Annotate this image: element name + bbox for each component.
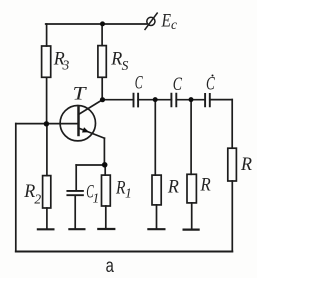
ground bar under second R (184, 229, 199, 231)
capacitor C second plates (171, 94, 176, 107)
wire cap2 to cap3 (176, 99, 205, 101)
resistor R second body (187, 174, 196, 203)
ground bar under R2 (38, 228, 54, 230)
node base (44, 121, 49, 126)
svg-text:1: 1 (93, 190, 100, 205)
capacitor C1 lead bottom (74, 196, 76, 228)
resistor R1 leads (104, 165, 107, 228)
resistor RS body (98, 46, 106, 78)
svg-text:c: c (171, 17, 177, 32)
svg-text:R: R (200, 175, 211, 196)
wire collector to cap chain (103, 99, 134, 101)
transistor T emitter (79, 128, 105, 138)
capacitor C1 lead top (75, 165, 77, 190)
svg-text:E: E (161, 11, 172, 32)
wire right rail lower (231, 181, 233, 252)
resistor R second leads (190, 100, 193, 229)
transistor T collector (79, 100, 103, 115)
wire left rail (15, 124, 17, 252)
wire cap3 to right rail (210, 99, 232, 101)
wire top rail (46, 23, 147, 25)
resistor R first leads (155, 100, 156, 229)
svg-text:C: C (173, 74, 182, 95)
node emitter (102, 162, 108, 168)
capacitor C1 plates (67, 191, 83, 195)
capacitor C first plates (134, 94, 139, 107)
terminal Ec circle (147, 17, 155, 25)
wire cap1 to cap2 (138, 99, 171, 101)
node top rail (100, 21, 105, 26)
ground bar under R1 (98, 228, 114, 230)
resistor RS leads (101, 24, 103, 100)
svg-text:3: 3 (62, 57, 70, 72)
wire right rail upper (231, 100, 233, 149)
svg-text:S: S (122, 58, 129, 73)
wire bottom (16, 251, 233, 253)
svg-text:2: 2 (34, 191, 41, 206)
wire emitter to C1 (76, 164, 105, 166)
transistor emitter arrow (82, 127, 89, 132)
dot above third C (212, 75, 214, 77)
svg-text:R: R (167, 176, 179, 197)
svg-text:R: R (240, 154, 252, 175)
resistor R2 body (43, 176, 51, 208)
resistor R feedback body (228, 148, 237, 181)
resistor R3 body (42, 46, 51, 77)
transistor T base bar (77, 107, 80, 135)
svg-text:a: a (106, 255, 114, 277)
node cap2-cap3 (189, 97, 194, 102)
ground bar under first R (148, 228, 164, 230)
node cap1-cap2 (153, 97, 158, 102)
ground bar under C1 (69, 228, 84, 230)
wire emitter vertical (103, 138, 105, 165)
svg-text:C: C (206, 74, 215, 95)
resistor R first body (152, 175, 161, 205)
resistor R3 leads (46, 24, 48, 124)
svg-text:T: T (73, 83, 88, 104)
capacitor C third plates (205, 94, 210, 106)
transistor T circle (60, 106, 95, 141)
resistor R2 leads (46, 124, 48, 229)
node collector (100, 97, 105, 102)
terminal slash (145, 13, 157, 29)
svg-text:1: 1 (125, 186, 132, 201)
wire base (16, 123, 79, 125)
resistor R1 body (102, 175, 111, 206)
svg-text:C: C (135, 73, 143, 94)
